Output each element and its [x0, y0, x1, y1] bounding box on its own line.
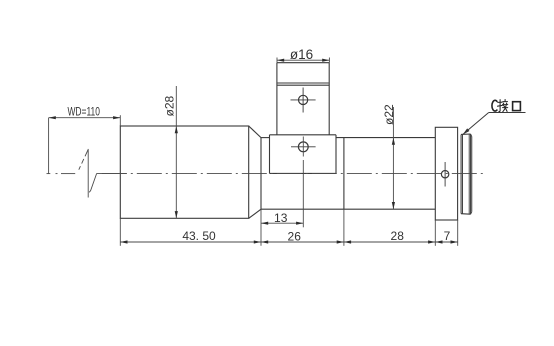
svg-text:ø16: ø16	[290, 47, 313, 62]
svg-text:26: 26	[288, 229, 302, 243]
svg-text:43. 50: 43. 50	[182, 229, 216, 243]
svg-text:ø22: ø22	[382, 104, 396, 125]
svg-text:28: 28	[391, 229, 405, 243]
svg-text:7: 7	[444, 229, 451, 243]
svg-text:ø28: ø28	[162, 95, 176, 116]
svg-text:WD=110: WD=110	[67, 107, 100, 119]
svg-text:13: 13	[274, 211, 288, 225]
